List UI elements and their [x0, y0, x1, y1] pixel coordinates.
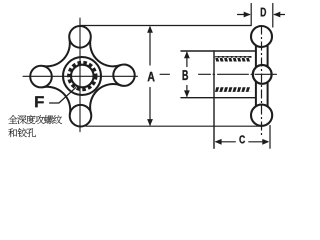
thread major dashed circle — [69, 63, 96, 90]
label A — [148, 72, 155, 81]
thread band top — [215, 56, 252, 62]
label C — [239, 135, 245, 143]
tapped hole minor circle — [71, 65, 94, 88]
valley arc top-right — [90, 39, 120, 66]
label B — [183, 70, 188, 80]
dim C right extension line — [269, 126, 271, 149]
knob right lobe — [113, 65, 134, 86]
dim C line left part — [216, 141, 235, 143]
thread band bottom — [215, 87, 252, 92]
side view bottom ball — [251, 105, 272, 126]
knob top lobe — [69, 26, 91, 48]
hole bottom outline and B extension — [181, 97, 255, 99]
side view vertical centerline — [261, 26, 263, 137]
side view right waist lines — [267, 45, 269, 107]
leader line F — [50, 88, 76, 103]
knob bottom lobe — [70, 105, 92, 127]
valley arc bottom-left — [43, 87, 70, 114]
label F — [35, 96, 44, 107]
dim C line right part — [249, 141, 268, 143]
side view middle ball — [253, 65, 272, 84]
valley arc left-top — [43, 39, 70, 66]
knob left lobe — [30, 66, 52, 88]
hole left face and C extension line — [213, 51, 215, 148]
dim D right arrow — [275, 14, 285, 16]
dim A top extension line — [80, 25, 251, 27]
front view vertical centerline — [79, 18, 81, 132]
label D — [261, 8, 266, 17]
dim D left extension line — [250, 4, 252, 26]
dim B line — [186, 53, 188, 97]
hub circle — [63, 57, 101, 95]
hole centerline — [160, 73, 277, 75]
dim D right extension line — [272, 4, 274, 28]
dim A bottom extension line — [86, 125, 262, 127]
front view horizontal centerline — [23, 75, 138, 77]
note: full-depth tapped and reamed hole — [8, 115, 62, 137]
valley arc right-bottom — [90, 84, 120, 113]
side view top ball — [251, 26, 272, 47]
hole top outline and B extension — [181, 50, 255, 52]
dim D left arrow — [238, 14, 250, 16]
side view left waist lines — [255, 45, 257, 106]
dim A line — [149, 27, 151, 125]
